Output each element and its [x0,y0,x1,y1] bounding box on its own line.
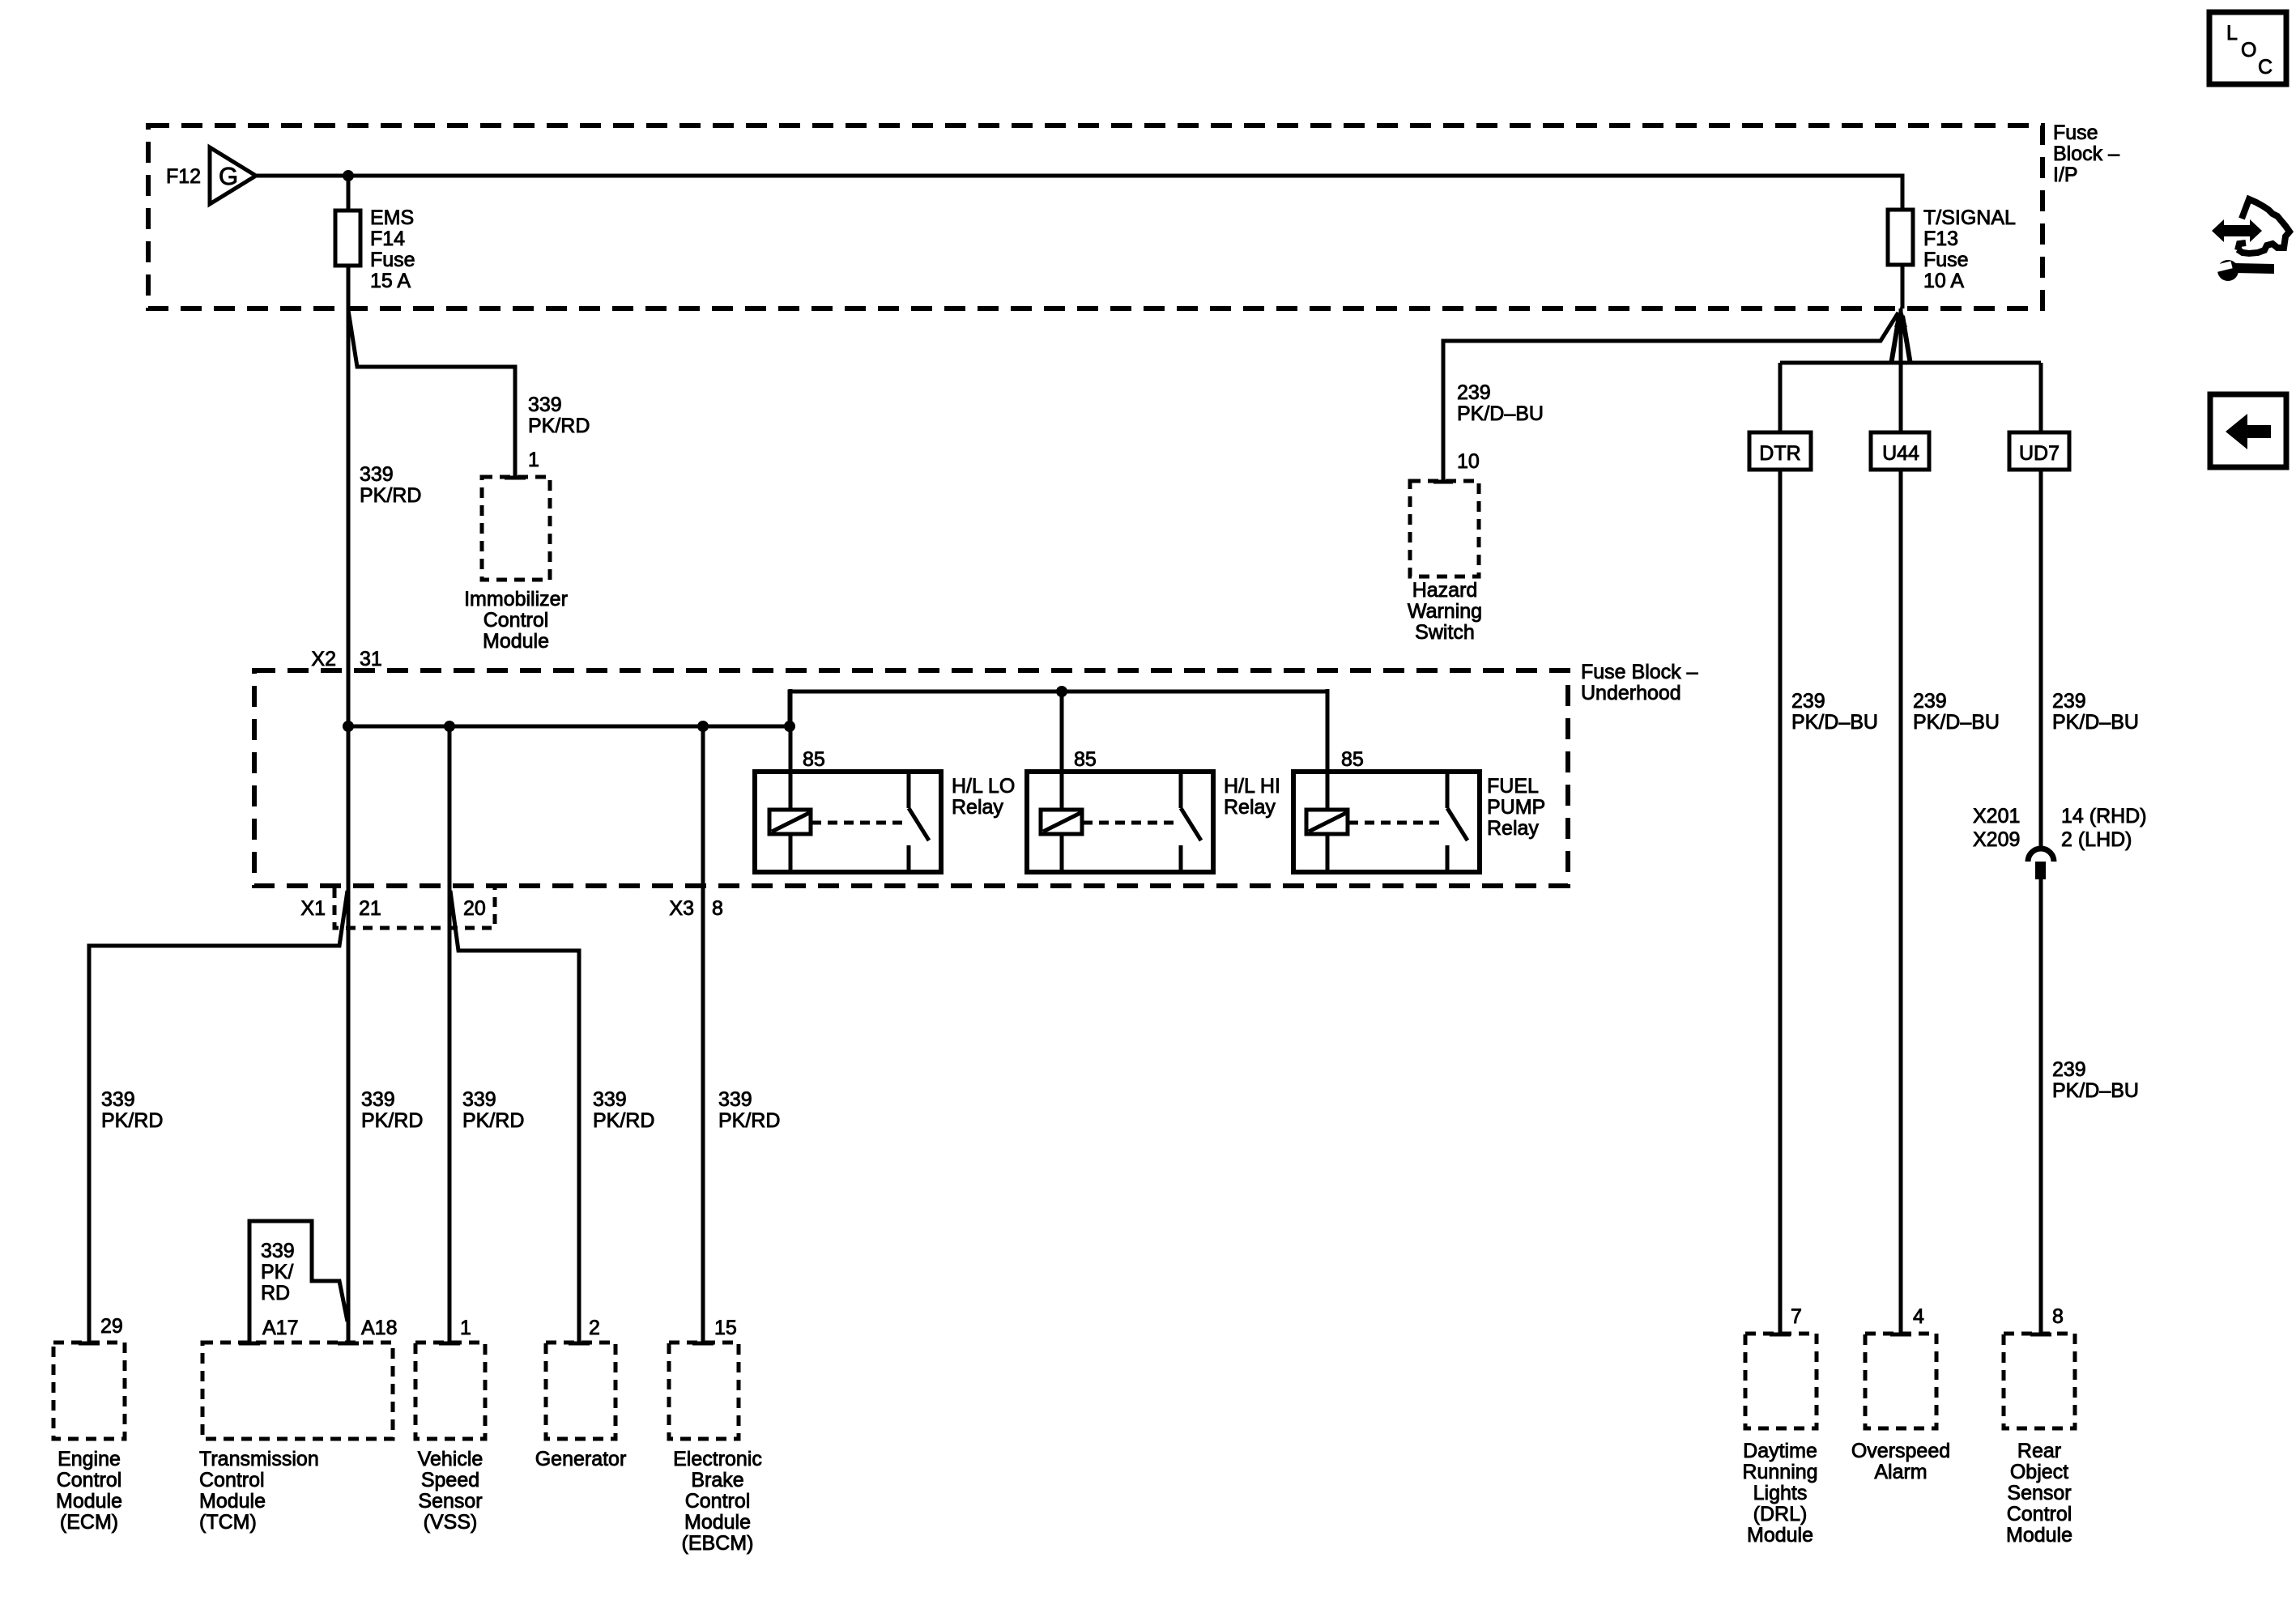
svg-text:339: 339 [462,1088,496,1111]
svg-text:Immobilizer: Immobilizer [464,588,568,611]
wire: DTR drop [1778,363,1783,432]
svg-text:PK/RD: PK/RD [593,1109,654,1132]
rear object sensor control module label [2006,1440,2072,1547]
svg-text:239: 239 [1913,690,1947,713]
option box DTR [1749,432,1811,470]
transmission control module box [202,1343,393,1439]
svg-text:Switch: Switch [1415,621,1475,644]
wire: underhood bus [348,725,790,729]
svg-text:Speed: Speed [421,1469,479,1491]
label 239 PK/D-BU (DTR wire) [1791,690,1878,734]
svg-text:X3: X3 [669,897,694,920]
wire: U44 drop [1899,309,1903,432]
svg-text:A17: A17 [262,1317,298,1339]
junction node bus at pin20 drop [444,721,455,732]
immobilizer control module label [464,588,568,653]
svg-text:Rear: Rear [2017,1440,2061,1462]
svg-text:15 A: 15 A [370,270,411,292]
label 339 PK/RD (immobilizer branch) [528,394,590,437]
svg-text:X1: X1 [300,897,326,920]
junction node relay header at H/L HI [1056,686,1067,697]
svg-text:Control: Control [2007,1503,2072,1526]
svg-text:PK/: PK/ [261,1261,293,1283]
electronic brake control module box [669,1343,739,1439]
svg-text:PK/RD: PK/RD [361,1109,423,1132]
label 339 PK/RD (main trunk) [360,463,421,507]
svg-text:X201: X201 [1973,805,2020,828]
svg-text:29: 29 [100,1315,123,1338]
fuse F13 (T/SIGNAL 10A) [1888,210,1913,265]
svg-text:PK/RD: PK/RD [101,1109,163,1132]
svg-text:PK/D–BU: PK/D–BU [1791,711,1878,734]
svg-text:20: 20 [463,897,486,920]
svg-text:1: 1 [460,1317,471,1339]
label 339 PK/RD (ECM wire) [101,1088,163,1132]
hazard warning switch dashed box [1410,481,1479,577]
service info icon (panel with arrow and wrench) [2212,199,2290,281]
immobilizer pin tick [505,476,526,480]
svg-text:PUMP: PUMP [1487,796,1545,819]
svg-text:339: 339 [528,394,562,416]
pin labels 7 4 8 [1791,1305,2064,1328]
svg-text:PK/D–BU: PK/D–BU [2052,1079,2139,1102]
svg-text:(DRL): (DRL) [1753,1503,1808,1526]
wire 339 PK/RD: fuse F14 down to TCM pin A18 [347,266,351,1343]
svg-text:O: O [2241,39,2256,62]
svg-text:EMS: EMS [370,206,414,229]
svg-text:239: 239 [1791,690,1825,713]
svg-text:21: 21 [359,897,381,920]
svg-text:8: 8 [712,897,723,920]
svg-text:G: G [219,162,238,190]
svg-text:239: 239 [2052,690,2086,713]
label 339 PK/RD (generator wire) [593,1088,654,1132]
svg-text:RD: RD [261,1282,290,1304]
engine control module label [56,1448,122,1534]
connector X2 pin 31 labels [311,648,381,670]
relay K3 name label [1487,775,1545,840]
svg-text:Module: Module [199,1490,266,1513]
label 339 PK/RD (VSS wire) [462,1088,524,1132]
svg-text:Hazard: Hazard [1412,579,1478,602]
generator label [535,1448,627,1470]
svg-text:Control: Control [57,1469,122,1491]
svg-text:PK/RD: PK/RD [360,484,421,507]
svg-text:Sensor: Sensor [418,1490,482,1513]
svg-text:10 A: 10 A [1923,270,1964,292]
svg-text:Running: Running [1742,1461,1817,1483]
daytime running lights module label [1742,1440,1817,1547]
svg-text:Transmission: Transmission [199,1448,319,1470]
hazard warning switch label [1408,579,1482,644]
svg-text:(EBCM): (EBCM) [682,1532,754,1555]
svg-text:Module: Module [684,1511,751,1534]
svg-text:Engine: Engine [58,1448,121,1470]
hazard switch pin tick [1433,480,1453,484]
option box U44 [1871,432,1929,470]
label 239 PK/D-BU (UD7 wire) [2052,690,2139,734]
wire 339 PK/RD to ECM pin 29 [89,891,347,1343]
fuse block underhood label [1581,661,1698,704]
svg-text:Underhood: Underhood [1581,682,1681,704]
relay K2 H/L HI [1027,689,1213,872]
svg-text:85: 85 [1341,748,1364,771]
splice arrow at fuse F13 output [1891,305,1910,364]
overspeed alarm label [1851,1440,1950,1483]
svg-text:339: 339 [360,463,394,486]
svg-text:Module: Module [2006,1524,2072,1547]
fuse block I/P dashed enclosure [148,126,2043,309]
svg-text:(ECM): (ECM) [60,1511,118,1534]
svg-text:Daytime: Daytime [1743,1440,1817,1462]
svg-text:Block –: Block – [2053,143,2119,165]
immobilizer control module dashed box [482,477,550,580]
svg-text:Module: Module [483,630,549,653]
wire 339 PK/RD pin20 to VSS pin 1 [448,726,452,1343]
svg-text:H/L HI: H/L HI [1224,775,1280,798]
connector X1 dotted outline [334,888,495,928]
svg-text:10: 10 [1457,450,1480,473]
svg-text:Object: Object [2010,1461,2068,1483]
svg-text:X209: X209 [1973,828,2020,851]
svg-text:Fuse: Fuse [1923,249,1969,271]
svg-text:F14: F14 [370,228,405,250]
svg-text:339: 339 [261,1240,295,1262]
svg-text:4: 4 [1913,1305,1924,1328]
svg-text:F13: F13 [1923,228,1958,250]
relay K1 name label [952,775,1015,819]
svg-text:339: 339 [361,1088,395,1111]
svg-text:Vehicle: Vehicle [418,1448,483,1470]
svg-text:Relay: Relay [1224,796,1276,819]
wire 339 PK/RD branch to generator pin 2 [450,891,579,1343]
svg-text:Module: Module [56,1490,122,1513]
svg-text:X2: X2 [311,648,336,670]
wire 339 PK/RD X3-8 to EBCM pin 15 [701,726,705,1343]
svg-text:339: 339 [101,1088,135,1111]
svg-text:DTR: DTR [1759,442,1800,465]
junction node above fuse F14 [343,170,354,181]
wire: UD7 drop [2039,363,2043,432]
svg-text:H/L LO: H/L LO [952,775,1015,798]
inline connector X201/X209 labels [1973,805,2020,851]
svg-text:PK/D–BU: PK/D–BU [1913,711,2000,734]
engine control module box [53,1343,125,1439]
fuse block I/P label [2053,121,2119,186]
svg-text:339: 339 [593,1088,627,1111]
wire 239 PK/D-BU U44 to overspeed alarm [1899,470,1903,1334]
svg-text:I/P: I/P [2053,164,2078,186]
relay K1 H/L LO [755,689,941,872]
svg-text:FUEL: FUEL [1487,775,1539,798]
relay K2 name label [1224,775,1280,819]
svg-text:Fuse Block –: Fuse Block – [1581,661,1698,683]
label 339 PK/RD (TCM A17 hook) [261,1240,295,1304]
wire 239 PK/D-BU UD7 to splice X201 [2039,470,2043,848]
vehicle speed sensor label [418,1448,483,1534]
svg-text:85: 85 [1074,748,1097,771]
svg-text:Relay: Relay [1487,817,1539,840]
wire branch to immobilizer (jog) [348,310,515,477]
svg-text:Control: Control [685,1490,751,1513]
label 239 PK/D-BU (hazard wire) [1457,381,1544,425]
wire: main feed from G triangle to F13 corner [256,176,1902,210]
overspeed alarm box [1865,1334,1936,1428]
svg-text:Warning: Warning [1408,600,1482,623]
relay K3 FUEL PUMP [1293,689,1480,872]
fuse F14 value label [370,206,415,292]
connector X3 pin labels [669,897,723,920]
svg-text:Control: Control [483,609,549,632]
svg-text:239: 239 [1457,381,1491,404]
label 339 PK/RD (EBCM wire) [718,1088,780,1132]
svg-text:(VSS): (VSS) [424,1511,478,1534]
svg-text:Alarm: Alarm [1874,1461,1927,1483]
power feed triangle G (F12) [210,147,256,204]
LOC reference icon [2209,12,2286,84]
junction node bus at relay feed [784,721,795,732]
svg-text:14 (RHD): 14 (RHD) [2061,805,2147,828]
svg-text:2: 2 [589,1317,600,1339]
svg-text:T/SIGNAL: T/SIGNAL [1923,206,2016,229]
label 239 PK/D-BU (U44 wire) [1913,690,2000,734]
fuse F13 value label [1923,206,2016,292]
svg-text:8: 8 [2052,1305,2064,1328]
svg-text:Module: Module [1747,1524,1813,1547]
svg-text:PK/D–BU: PK/D–BU [1457,402,1544,425]
label 239 PK/D-BU (rear object wire) [2052,1058,2139,1102]
svg-text:Electronic: Electronic [673,1448,762,1470]
daytime running lights module box [1745,1334,1817,1428]
svg-text:(TCM): (TCM) [199,1511,257,1534]
svg-text:15: 15 [714,1317,737,1339]
svg-text:1: 1 [528,449,539,471]
svg-text:Lights: Lights [1753,1482,1808,1504]
svg-text:PK/RD: PK/RD [462,1109,524,1132]
wire: relay feed riser and header [790,691,1327,810]
svg-text:239: 239 [2052,1058,2086,1081]
option box UD7 [2009,432,2069,470]
svg-text:A18: A18 [361,1317,397,1339]
svg-text:C: C [2258,56,2273,79]
wire 239 PK/D-BU X201 to rear object module [2039,879,2043,1334]
svg-text:7: 7 [1791,1305,1802,1328]
svg-text:L: L [2226,22,2238,45]
generator box [546,1343,616,1439]
svg-text:Generator: Generator [535,1448,627,1470]
inline connector symbol (female half) [2028,849,2054,862]
connector X1 pin labels [300,897,485,920]
back arrow icon [2210,394,2286,467]
junction node bus at X3 drop [697,721,709,732]
wire: fuse F13 output to arrow tip [1901,265,1905,309]
transmission control module label [199,1448,319,1534]
label 339 PK/RD (TCM A18 wire) [361,1088,423,1132]
junction node bus at trunk [343,721,354,732]
svg-text:Control: Control [199,1469,265,1491]
svg-text:PK/D–BU: PK/D–BU [2052,711,2139,734]
inline connector symbol (male terminal) [2035,862,2046,879]
electronic brake control module label [673,1448,762,1555]
fuse F14 (EMS 15A) [335,211,360,266]
wire 239 PK/D-BU to hazard warning switch [1443,313,1898,481]
wire: splice bus DTR-UD7 [1780,361,2041,365]
svg-text:PK/RD: PK/RD [718,1109,780,1132]
svg-text:UD7: UD7 [2019,442,2060,465]
vehicle speed sensor box [415,1343,485,1439]
pin labels 29 A17 A18 1 2 15 [100,1315,737,1339]
svg-text:Fuse: Fuse [2053,121,2098,144]
svg-text:339: 339 [718,1088,752,1111]
svg-text:85: 85 [803,748,825,771]
svg-text:2 (LHD): 2 (LHD) [2061,828,2132,851]
wire 239 PK/D-BU DTR to DRL module [1778,470,1783,1334]
fuse block underhood dashed enclosure [254,670,1568,886]
wire 339 PK/RD hook to TCM pin A17 [249,1221,347,1343]
inline connector pin labels 14/2 [2061,805,2147,851]
svg-text:PK/RD: PK/RD [528,415,590,437]
svg-text:31: 31 [360,648,382,670]
rear object sensor control module box [2004,1334,2075,1428]
wire: drop to fuse F14 [347,176,351,211]
svg-text:Sensor: Sensor [2007,1482,2071,1504]
svg-text:Overspeed: Overspeed [1851,1440,1950,1462]
svg-text:U44: U44 [1882,442,1919,465]
svg-text:F12: F12 [166,165,201,188]
svg-text:Relay: Relay [952,796,1003,819]
svg-text:Fuse: Fuse [370,249,415,271]
svg-text:Brake: Brake [691,1469,743,1491]
